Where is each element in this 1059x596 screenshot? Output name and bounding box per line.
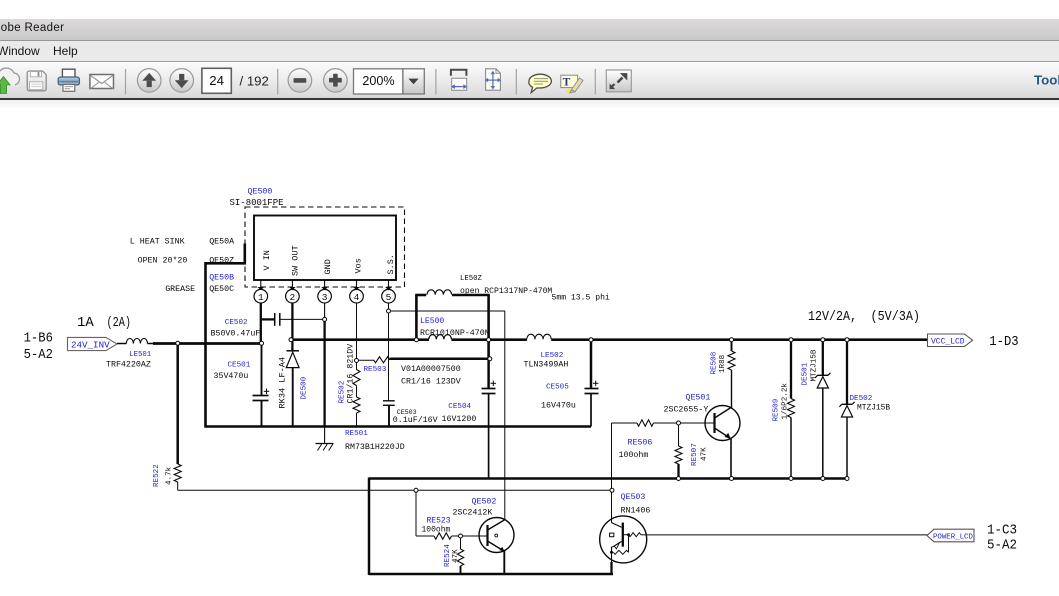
svg-text:47K: 47K xyxy=(701,447,709,461)
svg-text:POWER_LCD: POWER_LCD xyxy=(933,534,973,542)
svg-text:1/6P2.2k: 1/6P2.2k xyxy=(782,383,790,420)
svg-text:TLN3499AH: TLN3499AH xyxy=(524,360,569,369)
svg-text:SW OUT: SW OUT xyxy=(290,245,300,276)
svg-text:2SC2412K: 2SC2412K xyxy=(453,509,493,518)
svg-text:V01A00007500: V01A00007500 xyxy=(401,365,461,374)
svg-text:LE501: LE501 xyxy=(129,351,152,359)
svg-text:LE502: LE502 xyxy=(541,352,564,360)
svg-text:RE503: RE503 xyxy=(364,366,387,374)
svg-text:GREASE: GREASE xyxy=(165,285,195,294)
svg-text:CE504: CE504 xyxy=(448,403,471,411)
svg-text:QE501: QE501 xyxy=(686,394,711,403)
svg-text:QE50A: QE50A xyxy=(209,237,234,246)
svg-text:0.1uF/16V: 0.1uF/16V xyxy=(393,415,438,425)
svg-text:DE500: DE500 xyxy=(301,376,309,399)
svg-text:100ohm: 100ohm xyxy=(619,450,649,460)
svg-text:Tools: Tools xyxy=(1034,72,1059,87)
svg-text:RN1406: RN1406 xyxy=(621,507,651,516)
svg-text:B50V0.47uF: B50V0.47uF xyxy=(211,329,261,338)
svg-text:1: 1 xyxy=(258,292,264,303)
svg-text:RM73B1H220JD: RM73B1H220JD xyxy=(345,443,405,452)
svg-text:4: 4 xyxy=(354,292,360,303)
svg-text:24V_INV: 24V_INV xyxy=(71,340,110,351)
svg-text:5: 5 xyxy=(386,292,392,303)
svg-text:RE501: RE501 xyxy=(345,430,368,438)
svg-text:4.7k: 4.7k xyxy=(166,466,174,485)
svg-text:RE506: RE506 xyxy=(628,439,653,448)
svg-text:QE502: QE502 xyxy=(472,498,497,507)
svg-text:2SC2655-Y: 2SC2655-Y xyxy=(664,406,709,415)
svg-text:RE523: RE523 xyxy=(427,517,451,526)
svg-text:QE500: QE500 xyxy=(248,188,273,197)
svg-text:Vos: Vos xyxy=(353,258,363,273)
svg-text:100ohm: 100ohm xyxy=(422,526,451,535)
svg-text:5mm 13.5 phi: 5mm 13.5 phi xyxy=(552,294,610,303)
svg-text:RE507: RE507 xyxy=(691,443,699,466)
svg-text:RE522: RE522 xyxy=(153,464,161,487)
svg-text:35V470u: 35V470u xyxy=(214,372,249,381)
svg-text:1R88: 1R88 xyxy=(719,354,727,373)
svg-text:T: T xyxy=(563,76,571,88)
svg-text:GND: GND xyxy=(323,259,333,274)
svg-text:MTZJ15B: MTZJ15B xyxy=(857,404,890,413)
svg-text:S.S.: S.S. xyxy=(386,254,396,274)
svg-text:RE502: RE502 xyxy=(339,380,347,403)
svg-text:QE50B: QE50B xyxy=(209,273,234,282)
svg-text:(5V/3A): (5V/3A) xyxy=(871,309,921,325)
svg-text:V IN: V IN xyxy=(262,250,272,270)
svg-text:5-A2: 5-A2 xyxy=(24,347,53,363)
svg-text:16V470u: 16V470u xyxy=(541,401,576,410)
svg-text:24: 24 xyxy=(209,73,224,88)
svg-text:2: 2 xyxy=(290,292,296,303)
svg-text:L HEAT SINK: L HEAT SINK xyxy=(130,237,185,246)
svg-text:200%: 200% xyxy=(362,74,394,88)
svg-text:/ 192: / 192 xyxy=(240,74,269,89)
svg-text:(2A): (2A) xyxy=(107,315,132,331)
svg-text:CR1/16 821DV: CR1/16 821DV xyxy=(345,344,355,404)
svg-text:LE500: LE500 xyxy=(420,317,444,326)
svg-text:3: 3 xyxy=(322,292,328,303)
svg-text:CE505: CE505 xyxy=(546,384,569,392)
svg-text:VCC_LCD: VCC_LCD xyxy=(931,337,965,346)
svg-text:CE501: CE501 xyxy=(228,361,251,369)
svg-text:1-C3: 1-C3 xyxy=(987,522,1017,538)
svg-text:DE502: DE502 xyxy=(850,395,873,403)
svg-text:5-A2: 5-A2 xyxy=(987,538,1017,554)
svg-text:QE503: QE503 xyxy=(621,493,646,502)
svg-text:QE50C: QE50C xyxy=(209,285,234,294)
svg-text:CR1/16 123DV: CR1/16 123DV xyxy=(401,377,461,387)
svg-text:TRF4220AZ: TRF4220AZ xyxy=(106,360,151,369)
svg-text:DE501: DE501 xyxy=(802,362,810,385)
svg-text:RCR1010NP-470M: RCR1010NP-470M xyxy=(420,329,490,338)
svg-text:OPEN 20*20: OPEN 20*20 xyxy=(138,256,188,266)
svg-text:12V/2A,: 12V/2A, xyxy=(808,309,857,325)
svg-text:MTZJ15B: MTZJ15B xyxy=(811,349,819,381)
svg-text:1A: 1A xyxy=(77,315,94,331)
svg-text:RE509: RE509 xyxy=(773,398,781,421)
svg-text:47K: 47K xyxy=(452,549,460,563)
svg-text:LE50Z: LE50Z xyxy=(460,275,483,283)
svg-text:RE508: RE508 xyxy=(711,351,719,374)
svg-text:RE524: RE524 xyxy=(444,544,452,567)
svg-text:RK34 LF-A4: RK34 LF-A4 xyxy=(278,357,288,409)
svg-text:16V1200: 16V1200 xyxy=(442,415,477,424)
svg-text:1-D3: 1-D3 xyxy=(989,334,1018,350)
svg-text:open RCP1317NP-470M: open RCP1317NP-470M xyxy=(460,287,552,296)
svg-text:CE502: CE502 xyxy=(225,319,248,327)
svg-text:SI-8001FPE: SI-8001FPE xyxy=(230,198,284,208)
svg-text:1-B6: 1-B6 xyxy=(24,331,53,347)
